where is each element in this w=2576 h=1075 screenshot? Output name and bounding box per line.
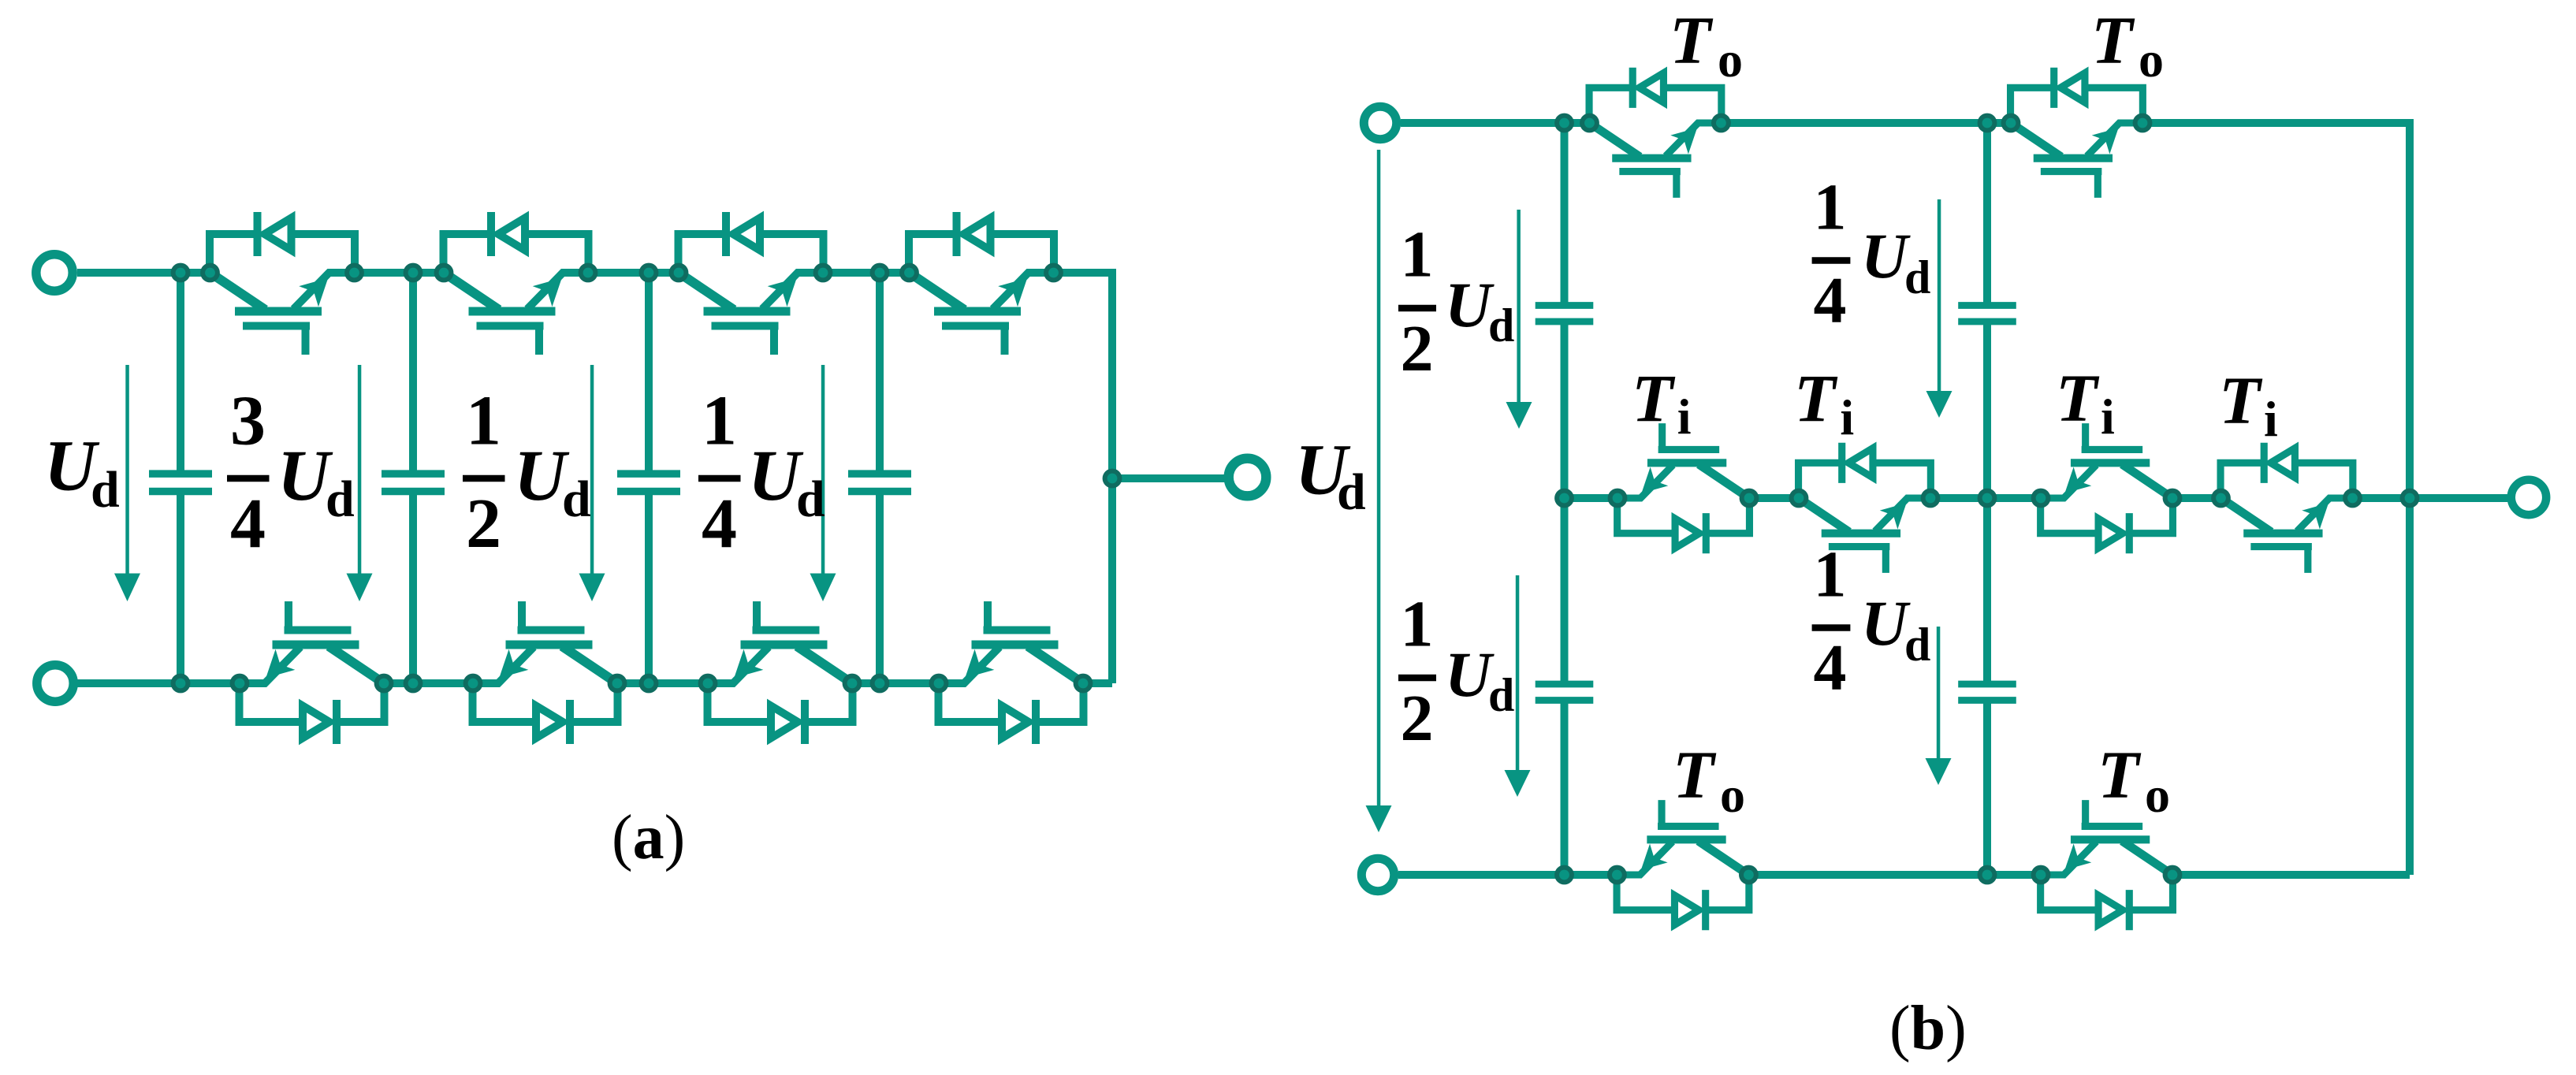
svg-text:1: 1 <box>1814 538 1847 612</box>
svg-text:U: U <box>1861 220 1911 292</box>
svg-text:4: 4 <box>1814 631 1847 705</box>
svg-text:2: 2 <box>1401 312 1434 385</box>
svg-text:o: o <box>1718 32 1743 87</box>
svg-text:d: d <box>1337 463 1366 521</box>
svg-text:2: 2 <box>466 485 501 563</box>
svg-text:T: T <box>1632 360 1676 436</box>
svg-text:1: 1 <box>466 382 501 460</box>
svg-text:i: i <box>1677 389 1692 445</box>
svg-text:T: T <box>1794 361 1838 437</box>
svg-text:d: d <box>562 471 591 528</box>
svg-text:1: 1 <box>1401 218 1434 292</box>
svg-text:(a): (a) <box>612 803 685 872</box>
svg-text:T: T <box>2091 2 2135 78</box>
svg-text:d: d <box>91 461 120 519</box>
svg-text:d: d <box>1904 619 1930 671</box>
svg-text:1: 1 <box>1814 171 1847 244</box>
svg-text:U: U <box>1861 587 1911 659</box>
svg-text:(b): (b) <box>1889 994 1967 1063</box>
svg-text:d: d <box>1904 251 1930 303</box>
svg-text:T: T <box>2056 360 2100 436</box>
svg-text:4: 4 <box>230 485 266 563</box>
svg-text:T: T <box>2098 737 2142 813</box>
svg-text:4: 4 <box>1814 264 1847 337</box>
svg-text:4: 4 <box>702 485 737 563</box>
svg-text:T: T <box>1673 737 1717 813</box>
svg-text:o: o <box>1720 767 1745 823</box>
svg-text:1: 1 <box>1401 588 1434 661</box>
svg-text:i: i <box>2101 389 2115 445</box>
svg-text:T: T <box>1670 2 1714 78</box>
svg-text:T: T <box>2219 363 2263 438</box>
svg-text:i: i <box>1840 389 1854 445</box>
svg-text:o: o <box>2145 767 2170 823</box>
svg-text:1: 1 <box>702 382 737 460</box>
svg-text:i: i <box>2264 391 2278 447</box>
svg-text:d: d <box>1488 299 1514 352</box>
svg-text:U: U <box>1445 638 1495 710</box>
svg-text:3: 3 <box>230 382 266 460</box>
svg-text:d: d <box>326 471 355 528</box>
svg-text:o: o <box>2139 32 2164 87</box>
svg-text:U: U <box>1445 269 1495 340</box>
svg-text:d: d <box>1488 669 1514 721</box>
svg-text:d: d <box>796 471 825 528</box>
svg-text:2: 2 <box>1401 682 1434 755</box>
